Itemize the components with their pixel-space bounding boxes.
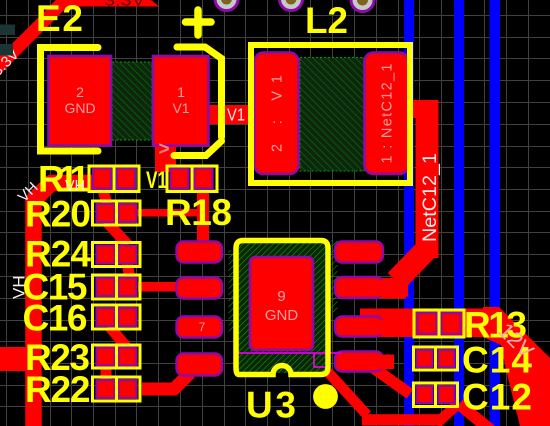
wire 12V diagonal and corner: [483, 307, 550, 426]
wire R24 to C15: [127, 262, 130, 278]
wire R18 right pad down to U3 pin: [197, 190, 209, 243]
svg-text:GND: GND: [64, 100, 95, 116]
box C16: [93, 305, 141, 329]
svg-text:R20: R20: [25, 194, 91, 235]
pad U3 left row B: [177, 278, 223, 299]
capacitor C14 pads: [417, 350, 433, 367]
svg-text:L2: L2: [305, 0, 348, 41]
resistor R23 pads: [97, 348, 115, 366]
silk E2 right bracket top: [177, 47, 222, 137]
svg-text:R22: R22: [25, 369, 91, 410]
resistor R11 pads: [93, 169, 111, 189]
svg-text:R18: R18: [165, 192, 232, 233]
wire bottom right exit: [459, 404, 493, 426]
wire U3 corner diagonal down: [328, 372, 367, 415]
silk plus symbol: [186, 10, 212, 35]
wire merge patch row B: [372, 280, 408, 297]
magenta keepout rect: [314, 354, 328, 368]
svg-text:V1: V1: [146, 167, 167, 194]
wire 3.3V top strip: [57, 0, 159, 7]
resistor R20 pads: [97, 204, 115, 222]
polygon pour hatch L2: [300, 58, 364, 172]
pad U3-9 GND: [250, 257, 313, 350]
silk E2 right bracket bottom: [174, 141, 222, 156]
wire NetC12_1 connector from L2 pad1: [403, 100, 438, 118]
pad U3 right row C: [335, 317, 383, 337]
wire C16 to R23: [109, 326, 129, 350]
wire R20 right pad to R18 net: [136, 209, 208, 217]
svg-text:>: >: [159, 139, 170, 160]
resistor R18 pads: [171, 169, 189, 189]
pad L2-2: [255, 53, 299, 175]
silkscreen yellow: [41, 10, 411, 409]
small pads left column: [93, 169, 461, 404]
silk U3 pin1 dot: [313, 384, 338, 409]
pad E2-1 V1: [153, 56, 209, 146]
svg-text:C16: C16: [23, 298, 88, 339]
DRC marker rects top-left: [0, 25, 15, 36]
resistor R22 pads: [97, 380, 115, 398]
via 3: [351, 0, 374, 12]
svg-text:9: 9: [277, 288, 285, 305]
capacitor C12 pads: [417, 386, 433, 403]
box C12: [414, 383, 458, 407]
polygon pour hatch E2: [112, 62, 152, 140]
svg-text:3.3V: 3.3V: [104, 0, 145, 10]
box R13: [414, 310, 464, 337]
pad U3 left row C pin7: [177, 317, 223, 338]
svg-text:V1: V1: [227, 105, 245, 125]
polygon pour hatch U3 interior: [229, 240, 338, 373]
magenta polygon border line: [237, 352, 342, 354]
svg-text:E2: E2: [36, 0, 83, 39]
pad U3 right row D: [335, 352, 383, 372]
via 1: [215, 0, 238, 11]
box C15: [93, 275, 141, 299]
bottom copper trace blue 2: [454, 0, 464, 426]
svg-text:7: 7: [199, 320, 206, 334]
wire merge patch row C: [372, 320, 402, 335]
pad E2-2 GND: [49, 56, 112, 146]
wire VH horizontal+bend+vertical: [34, 183, 99, 426]
resistor R13 pads: [418, 313, 437, 334]
box R23: [93, 345, 141, 368]
wire VH stub left: [0, 347, 27, 371]
box R11: [89, 166, 139, 192]
wire 3.3V diagonal: [0, 1, 64, 73]
svg-text:1 : NetC12_1: 1 : NetC12_1: [380, 64, 396, 164]
capacitor C16 pads: [97, 308, 115, 326]
silk U3 outline: [236, 241, 328, 375]
wire V1 E2 to L2: [205, 105, 257, 124]
via 2: [280, 0, 303, 11]
pad U3 right row B: [335, 277, 383, 298]
svg-text:1: 1: [177, 84, 185, 100]
box R20: [93, 201, 141, 225]
box R24: [93, 243, 141, 267]
svg-text:GND: GND: [265, 307, 299, 324]
wire R11 to R20: [102, 187, 107, 204]
wire bottom up-diagonal to C12: [436, 403, 459, 424]
svg-text:U3: U3: [246, 385, 296, 426]
svg-text:V1: V1: [172, 100, 189, 116]
pad L2-1: [365, 53, 409, 175]
svg-text:NetC12_1: NetC12_1: [420, 153, 441, 242]
pad texts: [64, 64, 395, 335]
box R18: [167, 166, 217, 192]
wire R20 to R24: [106, 221, 128, 245]
box R22: [93, 377, 141, 401]
wire V1 pad1 down to R18: [155, 141, 176, 172]
svg-text:VH: VH: [10, 275, 29, 299]
wire NetC12_1 diagonal to U3 pin: [396, 249, 427, 281]
wire C15 to U3 pin: [138, 282, 180, 292]
pad U3 left row D: [177, 354, 223, 376]
svg-text:VH: VH: [65, 178, 85, 195]
box C14: [414, 347, 458, 370]
pad U3 right row A: [335, 242, 383, 263]
svg-text:C12: C12: [462, 377, 532, 418]
resistor R24 pads: [97, 246, 115, 264]
bottom copper trace blue 3: [490, 0, 501, 426]
wire NetC12_1 vertical: [416, 100, 439, 258]
wire R22 to U3 pin: [142, 373, 190, 389]
silk L2 outline: [251, 45, 410, 183]
wire merge patch row D: [372, 355, 394, 370]
wire U3 row D to C12 pad: [368, 364, 410, 394]
silk boxes around small pads: [89, 166, 464, 407]
silk E2 left bracket: [41, 48, 99, 152]
wire U3 row B: [340, 278, 406, 299]
wire R23 to R22: [101, 365, 112, 380]
bottom copper trace blue 1: [404, 0, 414, 426]
capacitor C15 pads: [97, 278, 115, 296]
wire row C to R13: [360, 309, 499, 338]
wire bottom horizontal: [362, 414, 440, 425]
pad U3 left row A: [177, 242, 223, 263]
svg-text:2: 2: [76, 84, 84, 100]
svg-text:2 : V1: 2 : V1: [270, 75, 286, 152]
